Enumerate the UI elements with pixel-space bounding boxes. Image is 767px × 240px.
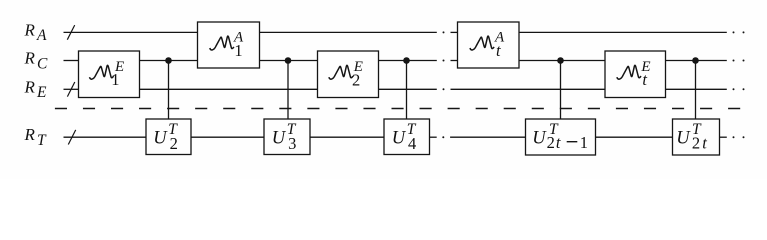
wire R_A segments (64, 31, 727, 33)
box U2t (673, 119, 720, 155)
label U2t-1 (532, 121, 588, 152)
svg-text:R: R (24, 77, 36, 96)
svg-text:U: U (272, 129, 287, 149)
control dot 1 (165, 57, 172, 64)
svg-text:t: t (702, 134, 707, 153)
svg-text:1: 1 (580, 133, 588, 152)
box U2t-1 (526, 119, 596, 155)
svg-text:T: T (37, 132, 47, 149)
ellipsis mid dots (442, 31, 444, 138)
svg-text:U: U (153, 129, 168, 149)
svg-text:R: R (24, 20, 36, 39)
ellipsis right-end dots (733, 31, 745, 138)
label M2E (329, 59, 363, 90)
control wire to U2t (695, 61, 697, 120)
svg-text:U: U (392, 129, 407, 149)
svg-text:t: t (556, 133, 561, 152)
bus slash on R_T (68, 130, 75, 145)
svg-text:1: 1 (234, 41, 242, 60)
svg-text:R: R (24, 125, 36, 144)
label R_T (24, 125, 48, 149)
box U4 (384, 119, 430, 155)
label U2t (676, 121, 707, 153)
box MtE (605, 51, 666, 98)
label R_E (24, 77, 48, 101)
box U2 (146, 119, 191, 155)
box M1E (79, 51, 140, 98)
label U4 (392, 121, 417, 153)
svg-text:2: 2 (547, 133, 555, 152)
control wire to U2 (168, 61, 170, 120)
label U3 (272, 121, 297, 153)
svg-text:C: C (37, 55, 48, 72)
svg-text:R: R (24, 49, 36, 68)
svg-text:1: 1 (111, 70, 119, 89)
label R_C (24, 49, 49, 73)
svg-text:4: 4 (408, 134, 416, 153)
control wire to U4 (406, 61, 408, 120)
svg-text:2: 2 (170, 134, 178, 153)
svg-text:t: t (496, 41, 501, 60)
svg-text:2: 2 (692, 134, 700, 153)
label MtA (470, 29, 505, 60)
svg-text:E: E (36, 84, 47, 101)
wire R_C segments (64, 60, 727, 62)
bus slash on R_E (67, 82, 74, 97)
dashed separator line (55, 108, 740, 110)
control wire to U3 (287, 61, 289, 120)
label M1A (210, 29, 244, 59)
wire R_T segments (64, 136, 727, 138)
bus slash on R_A (67, 25, 74, 40)
wire R_E segments (64, 88, 727, 90)
label M1E (90, 59, 125, 89)
label R_A (24, 20, 48, 44)
control dot 3 (403, 57, 410, 64)
control dot 2 (285, 57, 292, 64)
svg-text:U: U (676, 129, 691, 149)
svg-text:A: A (36, 27, 47, 44)
label MtE (617, 59, 651, 89)
box U3 (264, 119, 310, 155)
svg-text:U: U (532, 129, 547, 149)
label U2 (153, 121, 178, 153)
svg-text:t: t (642, 70, 647, 89)
box M2E (318, 51, 379, 98)
box M1A (198, 22, 260, 68)
control dot 5 (692, 57, 699, 64)
svg-text:3: 3 (288, 134, 296, 153)
svg-text:2: 2 (352, 70, 360, 89)
control wire to U2t-1 (560, 61, 562, 120)
control dot 4 (557, 57, 564, 64)
box MtA (458, 22, 520, 68)
